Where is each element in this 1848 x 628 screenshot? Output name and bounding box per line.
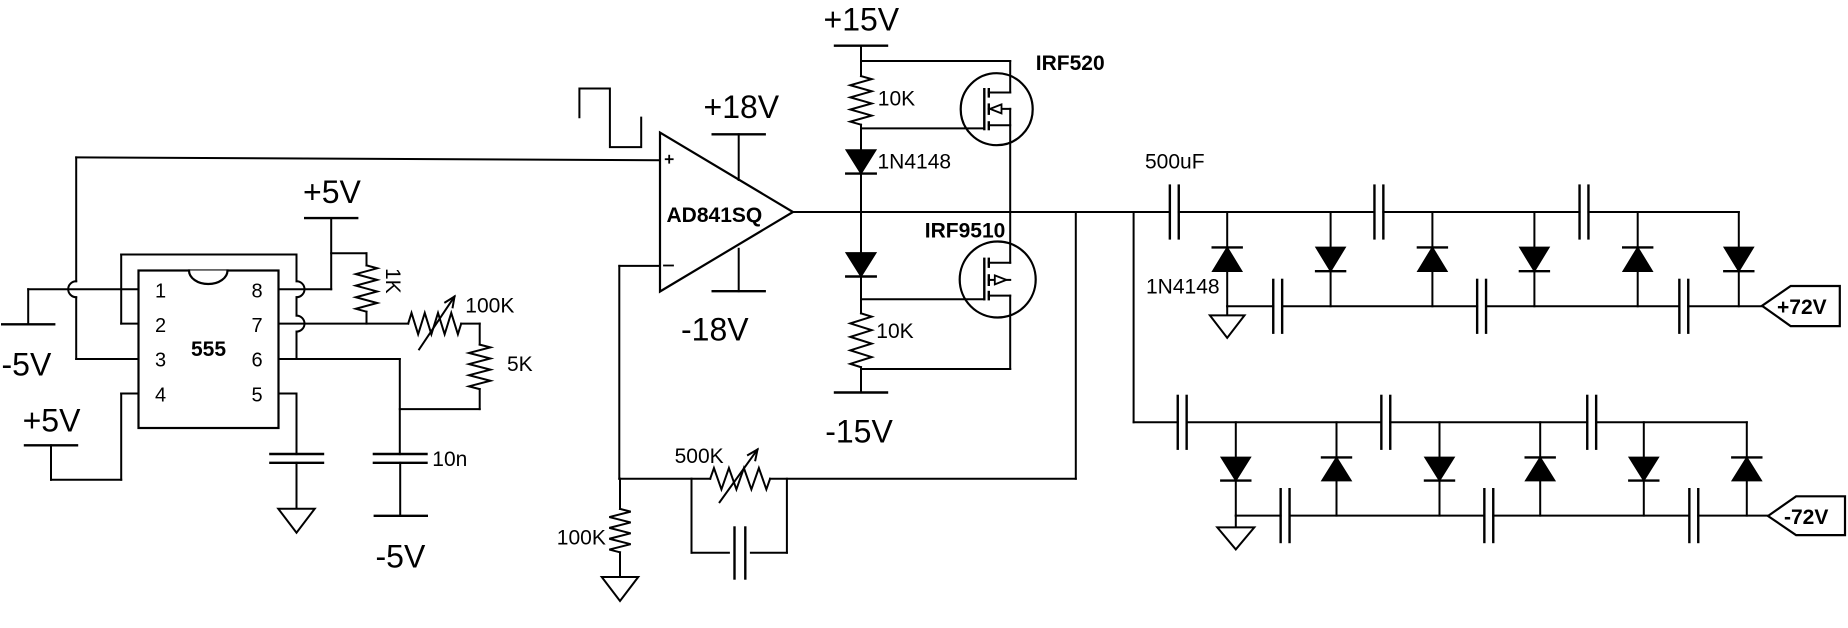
- svg-text:1: 1: [155, 281, 166, 303]
- svg-text:500uF: 500uF: [1145, 151, 1205, 174]
- svg-text:-5V: -5V: [376, 538, 426, 574]
- svg-text:7: 7: [252, 315, 263, 337]
- svg-text:500K: 500K: [675, 445, 724, 468]
- svg-text:10n: 10n: [432, 448, 467, 471]
- svg-text:100K: 100K: [557, 526, 606, 549]
- svg-text:100K: 100K: [465, 295, 514, 318]
- svg-text:1K: 1K: [381, 268, 404, 294]
- svg-text:555: 555: [191, 338, 226, 361]
- svg-text:1N4148: 1N4148: [878, 150, 952, 173]
- svg-text:+72V: +72V: [1777, 296, 1827, 319]
- svg-text:IRF520: IRF520: [1036, 52, 1105, 75]
- svg-text:1N4148: 1N4148: [1146, 276, 1220, 299]
- svg-text:+15V: +15V: [824, 1, 900, 37]
- svg-text:8: 8: [252, 281, 263, 303]
- svg-text:+5V: +5V: [23, 403, 81, 439]
- svg-text:2: 2: [155, 315, 166, 337]
- svg-text:10K: 10K: [876, 320, 913, 343]
- svg-text:-15V: -15V: [825, 414, 893, 450]
- svg-text:-72V: -72V: [1784, 506, 1828, 529]
- svg-text:5: 5: [252, 385, 263, 407]
- svg-text:6: 6: [252, 350, 263, 372]
- svg-text:AD841SQ: AD841SQ: [667, 204, 763, 227]
- svg-text:5K: 5K: [507, 353, 533, 376]
- svg-text:3: 3: [155, 350, 166, 372]
- svg-text:-5V: -5V: [2, 347, 52, 383]
- svg-text:10K: 10K: [878, 87, 915, 110]
- svg-text:+18V: +18V: [704, 89, 780, 125]
- svg-text:4: 4: [155, 385, 166, 407]
- svg-text:+5V: +5V: [303, 174, 361, 210]
- svg-text:IRF9510: IRF9510: [925, 219, 1006, 242]
- svg-text:-18V: -18V: [681, 312, 749, 348]
